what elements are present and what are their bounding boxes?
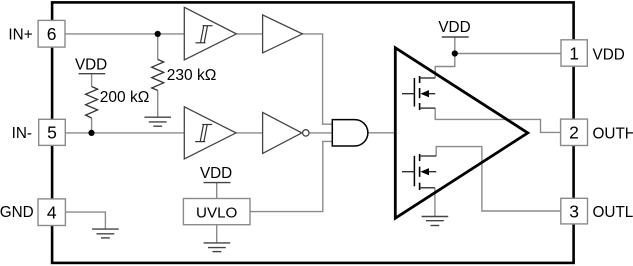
svg-text:200 kΩ: 200 kΩ bbox=[100, 89, 150, 106]
VDD symbol right (driver) bbox=[438, 19, 470, 37]
transistor Q1 (high side) bbox=[402, 76, 435, 110]
resistor R1 230k bbox=[152, 59, 164, 90]
buffer B1 bbox=[263, 15, 303, 53]
junction node VDD bbox=[452, 50, 458, 56]
svg-text:IN-: IN- bbox=[12, 125, 32, 142]
svg-text:2: 2 bbox=[569, 123, 579, 143]
AND gate bbox=[332, 120, 368, 146]
svg-text:6: 6 bbox=[47, 24, 57, 44]
Schmitt trigger ST1 bbox=[184, 7, 236, 60]
wire ST2 to inverter bbox=[236, 132, 263, 134]
svg-text:IN+: IN+ bbox=[8, 27, 32, 44]
inverter bubble bbox=[303, 130, 309, 136]
wire VDD bar to UVLO bbox=[216, 183, 218, 199]
wire AND output to driver triangle bbox=[368, 132, 395, 134]
svg-text:5: 5 bbox=[47, 123, 57, 143]
svg-text:VDD: VDD bbox=[438, 19, 470, 36]
wire VDD node to Q1 drain bbox=[435, 54, 455, 79]
wire B1 output to AND top input bbox=[302, 34, 332, 124]
wire Q1 source to pin2 OUTH bbox=[435, 108, 560, 132]
ground in driver triangle bbox=[422, 217, 449, 226]
pin box 5 bbox=[39, 119, 66, 145]
hysteresis glyph ST2 bbox=[195, 125, 212, 142]
svg-text:230 kΩ: 230 kΩ bbox=[167, 67, 217, 84]
output driver triangle bbox=[395, 48, 528, 218]
svg-text:1: 1 bbox=[569, 43, 579, 63]
wire UVLO output to AND bottom input bbox=[250, 141, 332, 211]
pin box 2 bbox=[561, 119, 588, 145]
wire Q2 drain to pin3 OUTL bbox=[436, 147, 561, 211]
resistor R2 200k bbox=[86, 87, 98, 119]
svg-text:VDD: VDD bbox=[593, 46, 625, 63]
pin box 6 bbox=[38, 20, 65, 47]
pin box 4 bbox=[38, 199, 65, 226]
inverter U1 bbox=[263, 112, 302, 153]
VDD symbol left bbox=[75, 56, 107, 73]
svg-text:OUTL: OUTL bbox=[593, 204, 633, 221]
svg-text:3: 3 bbox=[569, 201, 579, 221]
svg-text:VDD: VDD bbox=[200, 165, 232, 182]
wire inverter bubble to AND middle input bbox=[309, 132, 332, 134]
wire resistor R2 to IN- node bbox=[91, 118, 93, 133]
wire Q2 source to ground bbox=[434, 188, 436, 217]
wire VDD node to pin1 bbox=[455, 53, 561, 55]
svg-text:4: 4 bbox=[47, 203, 57, 223]
wire GND pin4 to ground bbox=[65, 212, 105, 229]
svg-text:OUTH: OUTH bbox=[593, 125, 633, 142]
pin box 3 bbox=[561, 198, 588, 224]
junction node on IN- wire bbox=[88, 130, 94, 136]
svg-text:VDD: VDD bbox=[75, 56, 107, 73]
UVLO block bbox=[183, 199, 250, 225]
ground below UVLO bbox=[204, 243, 231, 252]
wire IN- pin5 to Schmitt ST2 bbox=[65, 132, 184, 134]
wire UVLO to ground bbox=[216, 225, 218, 243]
transistor Q2 (low side) bbox=[402, 154, 436, 190]
wire ST1 to buffer B1 bbox=[236, 33, 262, 35]
hysteresis glyph ST1 bbox=[196, 26, 213, 43]
wire resistor R1 upper lead bbox=[157, 34, 159, 60]
ground below R1 bbox=[144, 117, 171, 126]
Schmitt trigger ST2 bbox=[184, 107, 236, 159]
wire IN+ pin6 to Schmitt ST1 bbox=[65, 33, 184, 35]
wire resistor R1 lower lead to ground bbox=[157, 90, 159, 117]
ground at pin4 bbox=[92, 229, 119, 238]
svg-text:UVLO: UVLO bbox=[196, 205, 238, 222]
junction node on IN+ wire bbox=[155, 31, 161, 37]
wire VDD bar to resistor R2 bbox=[91, 74, 93, 87]
wire VDD bar to VDD node bbox=[454, 37, 456, 54]
pin box 1 bbox=[561, 40, 587, 66]
svg-text:GND: GND bbox=[0, 204, 34, 221]
VDD symbol middle (UVLO) bbox=[200, 165, 232, 183]
